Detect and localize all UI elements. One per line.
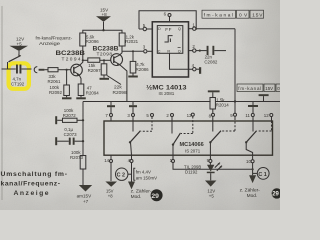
resistor R2092 100k — [64, 85, 70, 96]
0V rail horizontal — [83, 101, 211, 103]
label 1,5k R2014 — [216, 98, 229, 108]
svg-text:11: 11 — [245, 113, 250, 118]
svg-text:T2094: T2094 — [62, 56, 81, 62]
control 50 dashed — [141, 117, 152, 131]
label 33k R2061 — [48, 74, 61, 84]
label 5,6k R2096 — [86, 34, 99, 44]
terminal 30 / switch 1 input — [129, 102, 137, 132]
switch box MC14066 — [104, 121, 273, 155]
label 100k R2073 — [70, 150, 83, 160]
svg-text:+8: +8 — [102, 12, 108, 17]
IC U MC14013 outer box — [152, 22, 188, 77]
svg-text:C2082: C2082 — [204, 59, 217, 64]
svg-text:R: R — [167, 49, 170, 53]
svg-text:z. Zähler-: z. Zähler- — [240, 187, 261, 193]
resistor R2094 47 — [78, 84, 84, 96]
svg-text:fm 4,4V: fm 4,4V — [136, 169, 151, 174]
title fm-kanal/Frequenz-Anzeige (top) — [36, 36, 73, 46]
label pointer 22k R2098 — [107, 76, 121, 85]
emitter wire T2098 to 0V rail — [119, 64, 127, 101]
svg-text:15V: 15V — [252, 13, 263, 19]
svg-text:0V: 0V — [239, 13, 248, 19]
terminal 80 (R2014) label — [209, 113, 212, 118]
svg-text:am 150mV: am 150mV — [136, 176, 157, 181]
resistor R2073 100k — [80, 156, 86, 170]
svg-text:29: 29 — [151, 193, 159, 200]
schmitt trigger symbol — [165, 36, 173, 42]
switch 3 — [209, 121, 221, 155]
label 100k R2092 — [49, 85, 62, 95]
label 4,7n CT192 — [11, 77, 25, 87]
wire Q1 down right side — [234, 29, 236, 102]
svg-text:R2021: R2021 — [125, 39, 138, 44]
svg-text:D: D — [158, 27, 161, 31]
label z.Zaehler-Mod (right) — [240, 187, 261, 199]
capacitor C2082 22n — [207, 46, 226, 55]
output 90 wire to LED — [209, 155, 211, 165]
terminal 110 / switch 4 input — [248, 102, 258, 132]
svg-text:R2096: R2096 — [86, 39, 99, 44]
terminal 20 / switch 2 input — [171, 117, 173, 134]
signal arrow 40 — [128, 182, 135, 190]
svg-text:R2073: R2073 — [70, 155, 83, 160]
svg-text:C: C — [158, 49, 161, 53]
supply 15V arrow — [96, 16, 111, 30]
resistor R2097 15k — [83, 58, 111, 62]
label 4,7k R2086 — [136, 62, 149, 72]
resistor R2014 1,5k with terminal — [208, 90, 220, 120]
svg-text:CT192: CT192 — [11, 82, 25, 87]
svg-text:kanal/Frequenz-: kanal/Frequenz- — [1, 181, 61, 188]
svg-text:BC238B: BC238B — [56, 50, 86, 57]
paper background — [0, 0, 280, 210]
label z.Zaehler-Mod (center) — [131, 188, 152, 200]
connector plug/socket — [34, 67, 48, 73]
label 12V +5 — [16, 37, 25, 47]
page edge shadow line — [1, 6, 3, 200]
LED D1192 TIL209B — [207, 163, 222, 181]
emitter wire T2094 — [79, 75, 81, 84]
label 1/2 MC14013 IS2081 — [146, 83, 187, 96]
IC MC14013 inner FF box — [157, 26, 183, 54]
label 1,2k R2021 — [125, 34, 138, 44]
resistor R2096 5,6k — [80, 33, 86, 46]
transistor T2094 BC238B — [71, 64, 83, 76]
FF internal labels — [158, 27, 181, 53]
svg-text:Mod.: Mod. — [247, 193, 258, 199]
label 15V +8 — [100, 7, 109, 17]
pin 3 circle — [144, 50, 147, 53]
switch 1 — [129, 131, 141, 155]
pin 6 top — [168, 14, 171, 22]
pin 5 left — [147, 28, 152, 30]
svg-text:FF: FF — [165, 27, 172, 32]
control 120 dashed — [271, 117, 273, 121]
svg-text:IS 2081: IS 2081 — [159, 91, 175, 96]
capacitor CT192 4,7n — [16, 65, 32, 74]
node collector/15k — [82, 59, 84, 61]
svg-text:22k: 22k — [114, 84, 122, 90]
pin 2 right — [189, 50, 193, 52]
boxed labels fm-kanal 15V 0V (middle right) — [237, 84, 284, 92]
node base T2098 — [103, 59, 105, 61]
control 60 dashed — [181, 117, 193, 134]
label BC238B T2098 — [93, 46, 120, 58]
svg-text:12: 12 — [264, 113, 269, 118]
switch 4 — [245, 131, 257, 155]
label 22n C2082 — [204, 55, 217, 65]
label BC238B T2094 — [56, 50, 86, 62]
signal arrow 100 — [249, 175, 256, 183]
wire base to R2092 — [66, 70, 68, 85]
svg-text:fm-kanal: fm-kanal — [204, 13, 234, 19]
svg-text:R2014: R2014 — [216, 103, 229, 108]
transistor T2098 BC238B — [111, 54, 123, 66]
output 40 wire — [131, 155, 133, 182]
svg-text:Q: Q — [178, 49, 181, 53]
svg-text:15V: 15V — [265, 86, 273, 91]
svg-text:z. Zähler-: z. Zähler- — [131, 188, 152, 194]
boxed labels fm-kanal 0V 15V (top) — [202, 10, 264, 18]
svg-text:0V: 0V — [277, 86, 280, 91]
ground bar under R2092 — [62, 96, 72, 100]
bracket fm 4,4V am 150mV — [134, 168, 136, 180]
capacitor C2073 0,1u with terminal — [55, 137, 83, 145]
ground 15V +8 bottom — [105, 182, 117, 187]
svg-text:MC14066: MC14066 — [180, 142, 204, 148]
svg-text:R2097: R2097 — [88, 68, 101, 73]
ground am15V +7 — [79, 169, 92, 192]
svg-text:C 1: C 1 — [258, 172, 266, 178]
svg-text:Mod.: Mod. — [131, 194, 142, 200]
node base T2094 — [66, 69, 68, 71]
resistor R2098 22k — [101, 60, 107, 75]
svg-text:29: 29 — [272, 192, 279, 198]
label MC14066 IS2071 — [180, 142, 204, 154]
resistor R2072 100k with terminal — [55, 116, 83, 124]
svg-text:fm-kanal/Frequenz-: fm-kanal/Frequenz- — [36, 36, 73, 41]
collector wire T2094 — [79, 46, 83, 66]
svg-text:+8: +8 — [108, 193, 113, 198]
switch (fm-kanal) — [8, 55, 22, 69]
output 100 wire — [252, 155, 254, 175]
label 47 R2094 — [86, 86, 99, 96]
svg-text:R2094: R2094 — [86, 90, 99, 95]
svg-text:Q: Q — [178, 27, 181, 31]
switch 2 — [172, 133, 181, 155]
output 10 wire — [173, 155, 253, 169]
svg-text:IS 2071: IS 2071 — [185, 148, 201, 153]
output 140 wire — [110, 155, 112, 181]
node C1 — [253, 172, 258, 174]
svg-text:C2073: C2073 — [64, 132, 77, 137]
svg-text:Anzeige: Anzeige — [39, 41, 61, 46]
svg-text:R2072: R2072 — [63, 113, 76, 118]
ground bar under R2086 — [128, 73, 138, 78]
resistor R2021 1,2k — [119, 33, 125, 46]
bubble 29 (center) — [151, 189, 163, 201]
label TIL209B D1192 — [184, 165, 201, 175]
svg-text:14: 14 — [104, 158, 109, 163]
bubble 29 (right, clipped) — [272, 188, 282, 198]
wire pin5 loop over IC — [139, 11, 196, 29]
svg-text:R2086: R2086 — [136, 67, 149, 72]
node R2086 — [132, 50, 134, 52]
svg-text:fm-kanal: fm-kanal — [238, 86, 261, 91]
node C2 — [116, 168, 128, 180]
wire input row — [2, 68, 16, 70]
svg-text:D1192: D1192 — [185, 170, 198, 175]
terminal 70 — [107, 102, 115, 122]
control 90 dashed — [234, 102, 236, 119]
caption Umschaltung fm-kanal/Frequenz-Anzeige — [1, 171, 68, 197]
terminal bar 15V right — [259, 94, 269, 101]
label 0,1u C2073 — [64, 127, 77, 137]
terminal bar pin4 — [199, 67, 201, 74]
highlighter mark around capacitor CT192 — [9, 63, 29, 89]
pin 4 bottom (R) — [170, 53, 193, 69]
svg-text:T2098: T2098 — [97, 51, 113, 57]
svg-text:+5: +5 — [17, 41, 23, 46]
left 0V drop wire — [82, 102, 84, 156]
ground 12V +5 — [205, 181, 216, 187]
label 100k R2072 — [63, 108, 76, 118]
ground bar under R2098 — [100, 75, 110, 80]
svg-text:R2098: R2098 — [113, 90, 127, 96]
15V rail — [83, 30, 122, 33]
svg-text:+5: +5 — [209, 194, 215, 199]
resistor R2086 4,7k — [130, 51, 136, 73]
svg-text:C 2: C 2 — [117, 173, 125, 179]
collector wire T2098 / pin3 row — [119, 46, 122, 55]
svg-text:R2061: R2061 — [48, 79, 61, 84]
svg-text:Umschaltung fm-: Umschaltung fm- — [1, 171, 68, 178]
pin 1 right — [189, 28, 193, 30]
svg-text:R2092: R2092 — [49, 90, 62, 95]
label 15k R2097 — [88, 63, 101, 73]
supply +12V arrow — [10, 46, 29, 57]
resistor R2061 33k — [48, 68, 71, 72]
ground bar under R2094 — [76, 96, 86, 100]
svg-text:+7: +7 — [83, 199, 89, 204]
